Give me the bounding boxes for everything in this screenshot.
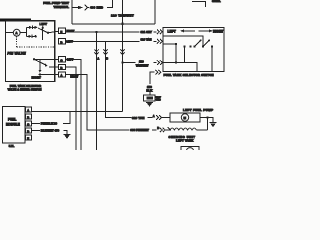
svg-text:LEFT FUEL PUMP: LEFT FUEL PUMP: [183, 108, 213, 112]
svg-text:5.7L: 5.7L: [9, 144, 15, 148]
connector pin D: [59, 39, 66, 44]
wire 400 RED: [88, 7, 90, 9]
svg-text:D: D: [27, 130, 29, 134]
connector chevron on center vertical: [120, 50, 124, 55]
right fuel pump (cropped at bottom edge): [181, 147, 199, 151]
svg-text:929 TAN: 929 TAN: [132, 116, 144, 120]
svg-text:VALVE & METER SWITCH: VALVE & METER SWITCH: [8, 88, 42, 92]
wire: center vertical 120 TAN/WHT drop: [122, 0, 124, 112]
module pin D: [26, 128, 32, 133]
wire: module pin A to center vertical: [31, 111, 122, 113]
node: bottom contact: [35, 35, 37, 37]
module pin A: [26, 107, 32, 112]
svg-text:B: B: [27, 116, 29, 120]
wire: arm pivot to pin E: [48, 31, 59, 33]
wire: sender to junction: [196, 118, 207, 131]
diode CR2 bottom: [26, 35, 28, 37]
valve motor A: [13, 29, 20, 36]
wire: 120 TAN/WHT feed vertical from top: [71, 0, 73, 24]
connector pin E: [59, 28, 66, 33]
switch internal wiring: [163, 36, 203, 47]
cropped black banner top-left: [0, 19, 31, 22]
svg-text:RIGHT: RIGHT: [213, 30, 223, 34]
connector >> (sender): [160, 128, 166, 133]
switch arm upper meter switch: [38, 28, 48, 33]
wire: horizontal bus H1: [72, 23, 155, 25]
wire 930 right segment: [152, 129, 157, 131]
node: junction pump/sender: [206, 116, 209, 119]
svg-text:PNK/BLK 39: PNK/BLK 39: [41, 122, 58, 126]
wire 929 TAN right segment: [148, 117, 153, 119]
connector chevron on V_a: [95, 50, 99, 55]
connector pin C: [59, 57, 66, 62]
wire: to pin B: [49, 66, 59, 68]
mechanical link PRI VALVE (dashed): [16, 36, 18, 47]
switch arm lower: [34, 59, 46, 65]
sending unit resistor: [168, 127, 172, 130]
wire into ground component: [149, 92, 151, 95]
svg-text:RIGHT: RIGHT: [32, 76, 42, 80]
wire: vertical V_a from 821 to bottom edge: [96, 32, 98, 150]
fuel tank selector valve &amp; meter switch box: [6, 21, 55, 82]
svg-text:PRI VALVE: PRI VALVE: [7, 52, 26, 56]
connector >> (150 BLK to switch): [156, 70, 162, 75]
wire: pump to ground corner: [200, 118, 213, 123]
wire: contact to pin C: [34, 58, 59, 60]
wire: cropped top-right L: [192, 2, 206, 8]
connector >> into switch (820): [157, 39, 163, 44]
svg-text:LEFT: LEFT: [168, 30, 176, 34]
wire BLK/WHT 450: [31, 129, 40, 131]
lower switch contact node: [33, 58, 35, 60]
switch arms: [195, 41, 210, 47]
svg-text:821 GRY: 821 GRY: [141, 30, 153, 34]
label RIGHT arrow: [199, 30, 212, 32]
connector >> into switch (120): [157, 60, 163, 65]
svg-text:E: E: [60, 30, 62, 34]
module pin C: [26, 121, 32, 126]
connector pin A: [59, 72, 66, 77]
actuation arrow RIGHT (down): [39, 60, 41, 71]
ground symbol below block: [146, 101, 153, 103]
wire: box edge to motor: [6, 32, 14, 34]
fuel module box: [3, 106, 25, 143]
svg-text:120 TAN/WHT: 120 TAN/WHT: [111, 13, 134, 17]
svg-text:FUEL TANK SELECTOR: FUEL TANK SELECTOR: [10, 84, 41, 88]
module pin E: [26, 135, 32, 140]
wire 821 GRY from pin E: [65, 31, 139, 33]
wire 150 BLK with corner: [150, 72, 155, 84]
ground symbol (module): [64, 133, 71, 135]
connector >> into switch (821): [157, 30, 163, 35]
actuation arrow LEFT (up): [42, 28, 44, 40]
wire: vertical V_b from 820 to 929 corner: [106, 41, 132, 117]
svg-text:TAN/WHT: TAN/WHT: [136, 64, 149, 68]
svg-text:400 RED: 400 RED: [90, 6, 104, 10]
connector pin B: [59, 64, 66, 69]
node: junction center vertical / 120 branch: [121, 61, 124, 64]
wire: motor to diode bracket: [20, 27, 26, 36]
svg-text:D: D: [60, 40, 62, 44]
svg-text:RIGHT: RIGHT: [70, 75, 78, 78]
svg-text:SIGNAL: SIGNAL: [212, 0, 221, 3]
wire: valve pin C down: [65, 59, 81, 150]
svg-text:LEFT: LEFT: [40, 22, 48, 26]
svg-text:BLK/WHT 450: BLK/WHT 450: [41, 129, 60, 133]
svg-text:A: A: [97, 57, 99, 60]
pump motor M: [181, 114, 188, 121]
switch contact dots: [202, 45, 204, 47]
svg-text:LEFT TANK: LEFT TANK: [176, 139, 194, 143]
node: junction 821 / V_a: [95, 31, 98, 34]
wire: right vertical to top edge: [154, 0, 156, 24]
svg-text:E: E: [27, 137, 29, 141]
wire PNK/BLK 39: [31, 122, 40, 124]
svg-text:MODULE: MODULE: [6, 123, 20, 127]
left fuel pump box: [170, 113, 200, 122]
svg-text:820 TAN: 820 TAN: [141, 38, 152, 42]
connector chevron on V_b: [103, 50, 107, 55]
svg-text:FUEL: FUEL: [8, 118, 16, 122]
svg-text:B: B: [157, 127, 159, 130]
wire: node to pin A: [39, 74, 59, 76]
ground connector block: [144, 95, 155, 101]
svg-text:TERMINAL: TERMINAL: [54, 5, 70, 9]
module pin B: [26, 114, 32, 119]
svg-text:FUEL TANK SELECTOR SWITCH: FUEL TANK SELECTOR SWITCH: [164, 73, 214, 77]
node: junction H1 / center vertical: [121, 23, 124, 26]
wire 820 TAN from pin D: [65, 40, 139, 42]
fuel pump test terminal stub and arrow: [72, 7, 78, 9]
connector: female terminal: [85, 5, 88, 11]
fuel tank selector switch box: [163, 28, 224, 72]
wire: valve pin A down then 930 PNK/WHT: [65, 75, 129, 131]
wire: valve pin B down: [65, 67, 76, 150]
svg-text:B: B: [60, 66, 62, 70]
wire: 120 TAN/WHT branch to switch: [123, 62, 136, 64]
connector >> (pump): [156, 115, 162, 120]
svg-text:A: A: [153, 115, 155, 118]
svg-text:B: B: [106, 57, 108, 60]
diode CR1 top: [26, 26, 29, 28]
svg-text:GND: GND: [156, 99, 161, 101]
svg-text:BLK: BLK: [146, 88, 153, 92]
ground symbol (pump): [209, 121, 216, 123]
svg-text:930 PNK/WHT: 930 PNK/WHT: [130, 128, 149, 132]
